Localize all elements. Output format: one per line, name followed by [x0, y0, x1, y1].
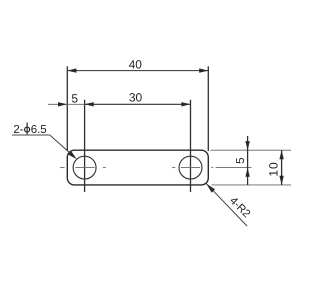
leader 4-R2 text: [227, 195, 252, 220]
svg-text:6.5: 6.5: [31, 124, 47, 136]
dim 5 text: [71, 91, 78, 105]
dim 5 right top arrow: [245, 141, 249, 150]
vertical centerline left hole: [84, 100, 86, 192]
extension line left (x=67.3): [66, 66, 68, 151]
leader 2-phi6.5 underline: [12, 134, 50, 136]
svg-text:30: 30: [129, 90, 143, 104]
dim 30 left arrow: [85, 102, 94, 106]
dim 5 inner line: [67, 103, 84, 105]
dim 10 bottom arrow: [279, 176, 283, 185]
dim 40 text: [129, 57, 143, 71]
dim 40 line: [67, 70, 208, 72]
leader 2-phi6.5 text: [13, 123, 46, 137]
dim 5 right bottom arrow: [245, 168, 249, 177]
dim 30 line: [85, 103, 191, 105]
dim 10 vertical line: [281, 150, 283, 185]
hole left: [73, 156, 96, 179]
extension line right (x=208.3): [207, 66, 209, 151]
svg-text:5: 5: [235, 157, 247, 163]
svg-text:5: 5: [71, 91, 78, 105]
dim 10 text: [266, 161, 280, 176]
leader 2-phi6.5 arrowhead: [68, 151, 77, 159]
svg-text:4-R2: 4-R2: [227, 195, 252, 220]
svg-text:10: 10: [266, 161, 280, 176]
dim 5 arrow: [58, 102, 67, 106]
leader 2-phi6.5 diagonal: [50, 135, 72, 155]
horizontal centerline segments: [60, 167, 252, 169]
dim 5 tail line: [48, 103, 67, 105]
dim 30 right arrow: [181, 102, 190, 106]
vertical centerline right hole: [190, 100, 192, 192]
hole right: [179, 156, 202, 179]
plate outline: [67, 150, 208, 185]
right extension line bottom edge: [212, 184, 292, 186]
svg-text:40: 40: [129, 57, 143, 71]
svg-text:2-: 2-: [13, 124, 23, 136]
dim 40 right arrow: [199, 68, 208, 72]
dim 30 text: [129, 90, 143, 104]
dim 5 right vertical line: [247, 136, 249, 185]
right extension line top edge: [211, 149, 292, 151]
leader 4-R2 arrowhead: [206, 184, 215, 193]
leader 4-R2 line: [206, 184, 247, 226]
dim 40 left arrow: [67, 68, 76, 72]
dim 10 top arrow: [279, 150, 283, 159]
dim 5 right text: [235, 157, 247, 163]
